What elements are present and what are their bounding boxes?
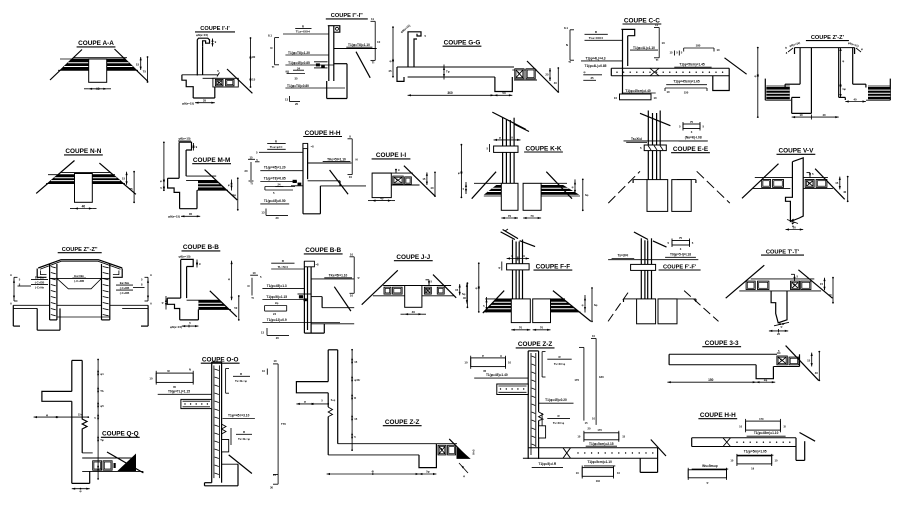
svg-text:TI: TI (272, 65, 275, 69)
joist row bottom (773, 366, 799, 368)
svg-text:10: 10 (464, 361, 468, 365)
dim right 1 (426, 172, 428, 185)
svg-text:2φ: 2φ (764, 378, 768, 382)
break line left (726, 265, 765, 298)
slab top line (383, 285, 451, 287)
svg-text:1φ: 1φ (842, 87, 846, 91)
slab rebar dots (616, 72, 617, 73)
slab second line (186, 179, 216, 181)
anchorage hatch (299, 295, 303, 298)
left dim (757, 48, 759, 118)
svg-text:75: 75 (679, 236, 683, 240)
svg-text:360: 360 (447, 91, 453, 95)
protrusion (539, 426, 546, 438)
joist row bottom (391, 184, 419, 186)
wall bottom (304, 332, 324, 334)
svg-text:COUPE 3-3: COUPE 3-3 (705, 340, 739, 347)
section COUPE N-N (36, 148, 136, 209)
parapet inner face (202, 46, 204, 74)
base bottom (180, 319, 199, 321)
svg-text:A: A (10, 302, 12, 306)
central wall zigzag (786, 158, 804, 222)
triangle hypotenuse (107, 452, 143, 473)
svg-text:30: 30 (270, 486, 274, 490)
dim bottom (511, 329, 530, 331)
svg-text:φ: φ (482, 355, 484, 358)
svg-text:=8: =8 (316, 263, 320, 267)
bracket right (374, 21, 376, 60)
svg-text:15: 15 (273, 473, 276, 477)
column lines (512, 240, 514, 299)
section COUPE F'-F' (608, 232, 718, 324)
dim bottom (89, 88, 107, 90)
svg-text:φ: φ (572, 186, 574, 189)
svg-text:5φ: 5φ (426, 470, 429, 474)
svg-text:φ: φ (100, 468, 102, 471)
base right (196, 190, 198, 209)
break line left (483, 291, 504, 314)
svg-text:φ8(e=15): φ8(e=15) (168, 215, 180, 219)
svg-text:COUPE V-V: COUPE V-V (778, 148, 814, 155)
section COUPE Z-Z right (464, 334, 666, 483)
section COUPE H-H bottom (688, 412, 815, 485)
bracket left (274, 38, 276, 65)
right dim 1 (231, 261, 233, 301)
svg-text:φ: φ (228, 277, 230, 281)
slab cross (723, 438, 731, 447)
section COUPE I'-I' (182, 26, 256, 105)
footing left (637, 299, 656, 324)
svg-text:COUPE I-I: COUPE I-I (376, 152, 406, 159)
svg-text:COUPE F-F: COUPE F-F (536, 263, 571, 270)
cap dim (507, 258, 529, 260)
break line (229, 455, 252, 474)
svg-text:5+φ: 5+φ (331, 399, 336, 402)
svg-text:T1(φ=4L)=1.10: T1(φ=4L)=1.10 (633, 46, 655, 50)
svg-text:15: 15 (455, 288, 459, 292)
break line right (553, 291, 591, 322)
break line (725, 58, 747, 74)
svg-text:35: 35 (189, 212, 193, 216)
anchorage hatch (316, 63, 320, 66)
footing left (511, 299, 530, 323)
acrotere hook (181, 259, 194, 266)
slab rebar dots (736, 442, 737, 443)
svg-text:T0(φ=5-l)=l.18: T0(φ=5-l)=l.18 (670, 252, 691, 256)
svg-text:35: 35 (590, 76, 594, 80)
svg-text:φ8(e=15): φ8(e=15) (170, 325, 182, 329)
svg-text:COUPE B-B: COUPE B-B (305, 247, 341, 254)
right ledge (677, 298, 696, 300)
center dim (840, 48, 842, 98)
ground line (608, 259, 698, 261)
column lines (640, 238, 642, 299)
svg-text:15: 15 (622, 435, 625, 439)
tick above (794, 274, 796, 281)
center footing (36, 308, 38, 330)
svg-text:T1(φ=45m)=1.10: T1(φ=45m)=1.10 (754, 431, 779, 435)
left dim (34, 416, 89, 418)
footing right (523, 183, 541, 210)
svg-text:15: 15 (422, 177, 426, 181)
break line (227, 69, 252, 93)
svg-text:Ts=3l=l: Ts=3l=l (617, 254, 628, 258)
svg-text:COUPE B-B: COUPE B-B (183, 244, 219, 251)
right dim 2 (238, 296, 240, 320)
svg-text:24: 24 (278, 183, 281, 187)
slab top line (61, 171, 111, 173)
break line top2 (653, 241, 667, 247)
svg-text:N+5: N+5 (472, 449, 476, 454)
svg-text:TI: TI (372, 61, 375, 65)
left hatched masonry (766, 87, 790, 99)
left arrow cluster (165, 296, 167, 310)
svg-text:10: 10 (262, 369, 265, 373)
slab line right (334, 48, 377, 50)
dim right 2 (557, 68, 559, 92)
svg-text:COUPE G-G: COUPE G-G (444, 40, 481, 47)
svg-text:COUPE N-N: COUPE N-N (65, 148, 101, 155)
beam stem (75, 174, 93, 203)
svg-text:A: A (10, 273, 12, 277)
svg-text:11: 11 (655, 23, 658, 27)
svg-text:COUPE M-M: COUPE M-M (193, 157, 230, 164)
slab right top (803, 177, 828, 179)
svg-text:T1(φ=45)=1.20: T1(φ=45)=1.20 (264, 166, 286, 170)
section COUPE C-C (564, 17, 747, 100)
svg-text:10: 10 (739, 424, 742, 428)
svg-text:(-C+Ne: (-C+Ne (35, 286, 44, 290)
lower long line (311, 323, 354, 325)
break line (330, 170, 349, 194)
section COUPE B-B left (162, 244, 240, 329)
wall top (212, 361, 222, 363)
bar below (582, 468, 613, 477)
joist block hatched (438, 445, 446, 455)
break line left (362, 270, 398, 304)
svg-text:COUPE K-K: COUPE K-K (526, 145, 562, 152)
svg-text:10: 10 (717, 48, 721, 52)
svg-text:COUPE I'-I': COUPE I'-I' (200, 26, 230, 32)
svg-text:TLa=XXl=l: TLa=XXl=l (589, 36, 604, 40)
svg-text:T1(φ=T8)=0.85: T1(φ=T8)=0.85 (264, 177, 286, 181)
svg-text:TI: TI (250, 182, 253, 186)
left bracket (13, 277, 15, 301)
left tick cluster (486, 297, 488, 313)
svg-text:15: 15 (252, 78, 256, 82)
right tall bracket (583, 347, 585, 420)
svg-text:50: 50 (234, 306, 238, 310)
break line top (634, 232, 648, 240)
svg-text:(-C+DB: (-C+DB (120, 286, 129, 290)
svg-text:35: 35 (294, 76, 298, 80)
acrotere inner face (414, 39, 417, 67)
svg-text:70: 70 (540, 326, 544, 330)
svg-text:8.1: 8.1 (268, 34, 272, 38)
svg-text:φ: φ (781, 325, 783, 328)
joist right end (799, 354, 801, 366)
joist block (789, 357, 799, 365)
beam stem (405, 286, 422, 308)
acrotere inner face (185, 150, 187, 176)
joist ledge top (82, 457, 136, 459)
svg-text:70: 70 (530, 214, 534, 218)
svg-text:Ts=Xl=φ: Ts=Xl=φ (554, 362, 565, 366)
section COUPE A-A (50, 40, 148, 91)
svg-text:T1(φ=45)=0.20: T1(φ=45)=0.20 (545, 398, 567, 402)
svg-text:φ8(e=15): φ8(e=15) (196, 33, 208, 37)
slab (692, 437, 796, 439)
break line right (433, 275, 456, 298)
break line right (115, 49, 149, 82)
svg-text:150: 150 (684, 91, 689, 95)
slab cross (650, 68, 659, 76)
center column (810, 48, 812, 114)
joist blocks left (762, 180, 771, 188)
cap dim top (494, 139, 521, 141)
wall right face (337, 350, 339, 444)
svg-text:(-C+DB: (-C+DB (74, 279, 84, 283)
svg-text:15: 15 (354, 417, 357, 421)
svg-text:T1(φ=T8)=1.20: T1(φ=T8)=1.20 (288, 51, 310, 55)
hatched ground left (484, 299, 512, 312)
dim bottom right (845, 101, 866, 103)
svg-text:13: 13 (285, 97, 289, 101)
section COUPE T'-T' (726, 249, 834, 336)
slab right bottom (803, 187, 833, 189)
left slab stub (181, 399, 212, 408)
slab top line (397, 66, 514, 68)
svg-text:9φ: 9φ (232, 193, 236, 197)
slab bottom line (739, 290, 821, 292)
top line over joists (372, 172, 413, 174)
ledge bottom / steps (182, 75, 193, 98)
right bracket 1 (541, 352, 543, 377)
center dim line (97, 360, 99, 479)
section COUPE J-J (362, 254, 469, 315)
dim bottom (405, 313, 422, 315)
svg-text:T1(φ=4L)=4.3: T1(φ=4L)=4.3 (585, 57, 605, 61)
joist ledge bottom (82, 470, 143, 472)
support block (372, 173, 391, 198)
svg-text:T1(φ=5cm)=2.15: T1(φ=5cm)=2.15 (589, 442, 614, 446)
wall left face (71, 360, 73, 391)
slab top line (186, 175, 216, 177)
svg-text:15: 15 (122, 177, 126, 181)
svg-text:40: 40 (380, 196, 384, 200)
svg-text:COUPE A-A: COUPE A-A (78, 40, 114, 47)
break line left dashed (608, 171, 640, 203)
svg-text:φ: φ (861, 48, 863, 51)
svg-text:8.1: 8.1 (564, 26, 568, 30)
svg-text:70: 70 (519, 326, 523, 330)
bottom dim (72, 488, 90, 490)
svg-text:15: 15 (136, 63, 140, 67)
dim right 1 (549, 68, 551, 81)
hook tick (193, 143, 195, 151)
hatched ground left (484, 185, 512, 195)
svg-text:10: 10 (377, 40, 381, 44)
column lines (647, 111, 649, 180)
svg-text:Ts=3L=φ: Ts=3L=φ (235, 379, 247, 383)
slab bottom line (669, 364, 756, 366)
svg-text:10: 10 (350, 294, 354, 298)
console cap (507, 264, 529, 270)
svg-text:20: 20 (275, 216, 279, 220)
wall inner lines (530, 353, 532, 455)
bar bottom left (688, 470, 726, 478)
parapet coping hook (197, 38, 209, 75)
bottom slab (528, 447, 657, 449)
left ledge (633, 179, 647, 181)
left column (49, 264, 51, 320)
hatched slab left (60, 59, 88, 70)
footing left (647, 180, 668, 212)
left ledge (624, 298, 637, 300)
right hatched masonry (868, 87, 890, 99)
bar schedule top (746, 421, 781, 430)
svg-text:20: 20 (276, 336, 280, 340)
svg-text:COUPE Z'-Z': COUPE Z'-Z' (811, 35, 845, 41)
svg-text:150: 150 (708, 378, 714, 382)
break line right (99, 163, 135, 194)
joist block hatched (215, 79, 223, 85)
svg-text:10: 10 (350, 252, 354, 256)
svg-text:5φ: 5φ (462, 292, 465, 296)
column footing (791, 97, 793, 113)
svg-text:φ: φ (499, 136, 501, 140)
svg-text:T1(φ=5cm)=1.10: T1(φ=5cm)=1.10 (587, 460, 612, 464)
slab right end (657, 448, 659, 473)
left dim (478, 263, 480, 312)
svg-text:X: X (500, 354, 502, 358)
wall notch (222, 424, 226, 434)
console cap (631, 264, 656, 270)
dim right 1 (839, 177, 841, 190)
svg-text:180: 180 (599, 375, 604, 379)
bar schedule top (471, 358, 506, 367)
tick above (428, 280, 430, 286)
beam drop (419, 444, 436, 468)
svg-text:24: 24 (297, 66, 301, 70)
section COUPE Z"-Z" (10, 247, 152, 330)
svg-text:T1(φ=5m)=1.05: T1(φ=5m)=1.05 (744, 450, 767, 454)
wall faces (211, 362, 213, 483)
svg-text:10: 10 (149, 377, 153, 381)
bracket right (351, 139, 353, 175)
wall left face (327, 350, 329, 382)
leader line (259, 151, 303, 153)
column lines (502, 118, 504, 184)
wall cap (303, 143, 308, 148)
ledge bottom right (203, 77, 218, 79)
hook tick (196, 260, 198, 268)
stem polyline (771, 291, 787, 323)
slab bottom step (308, 180, 340, 182)
section COUPE H-H (256, 130, 366, 220)
hatched ground right (551, 299, 580, 312)
svg-text:75: 75 (143, 70, 147, 74)
beam stem (89, 59, 107, 82)
right tall bracket (277, 364, 279, 484)
bracket right top (658, 28, 660, 58)
joist blocks right (791, 281, 800, 289)
joist block (526, 69, 535, 79)
svg-text:A: A (150, 302, 152, 306)
small arrow below (459, 463, 468, 473)
slab left bottom (753, 187, 791, 189)
svg-text:=8: =8 (311, 145, 315, 149)
break line (786, 346, 819, 381)
tick above (395, 169, 397, 173)
left dim (163, 142, 165, 190)
dim right 1 (140, 57, 142, 70)
section COUPE I"-I" (268, 13, 394, 106)
base right (197, 310, 199, 320)
svg-text:10: 10 (662, 41, 666, 45)
svg-text:45: 45 (388, 69, 392, 73)
svg-text:COUPE Z"-Z": COUPE Z"-Z" (62, 247, 98, 253)
svg-text:6φ: 6φ (594, 303, 597, 307)
break line (205, 170, 238, 200)
top arm (296, 382, 328, 393)
slab top line right (308, 162, 352, 164)
left C bracket (37, 269, 46, 278)
footing (620, 94, 652, 100)
right dim cluster (574, 179, 576, 194)
right bracket 2 (230, 428, 232, 445)
bracket below (665, 87, 707, 89)
svg-text:15+: 15+ (78, 412, 83, 416)
section COUPE I-I (368, 152, 436, 202)
tick 13 20 (289, 96, 291, 102)
svg-text:TL=5l=l: TL=5l=l (278, 265, 289, 269)
middle trapezoid (57, 278, 102, 288)
svg-text:3l: 3l (784, 424, 786, 428)
tick 13 20 (266, 328, 268, 335)
bracket 180 (684, 47, 714, 49)
svg-text:(Na=K(-l.08: (Na=K(-l.08 (685, 136, 702, 140)
svg-text:Ea=Nm: Ea=Nm (120, 281, 130, 285)
left slab stub (497, 384, 528, 395)
svg-text:A: A (150, 273, 152, 277)
dim far right (392, 27, 394, 76)
svg-text:φ: φ (458, 171, 460, 175)
svg-text:N: N (248, 284, 250, 288)
break line right dashed (684, 291, 718, 322)
svg-text:35: 35 (203, 99, 207, 103)
break line top2 (520, 241, 536, 247)
step bar left (265, 186, 295, 188)
joist block hatched (515, 69, 524, 79)
svg-text:40: 40 (822, 113, 826, 117)
ledge steps (167, 297, 180, 299)
bottom tie (57, 316, 110, 318)
slab right drop (713, 68, 729, 90)
right bracket (147, 277, 149, 301)
slab bottom line (328, 454, 419, 456)
svg-text:20: 20 (588, 427, 591, 431)
floor slab (611, 67, 729, 69)
svg-text:10: 10 (775, 459, 778, 463)
dim bottom (408, 94, 494, 96)
svg-text:φ: φ (706, 482, 708, 485)
svg-text:170: 170 (759, 417, 764, 421)
svg-text:75: 75 (690, 120, 694, 124)
far left dim (466, 283, 468, 303)
svg-text:N: N (356, 158, 358, 162)
svg-text:Ws=5m=φ: Ws=5m=φ (702, 464, 718, 468)
